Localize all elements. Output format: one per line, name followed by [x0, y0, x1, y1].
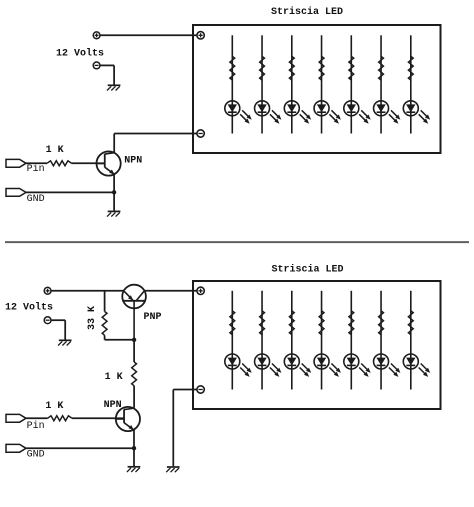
svg-text:12 Volts: 12 Volts — [56, 48, 104, 60]
LED strip module box (bottom box) — [193, 281, 441, 409]
svg-text:Striscia LED: Striscia LED — [271, 6, 343, 18]
divider line between circuits — [5, 241, 469, 243]
ground at supply - (bottom) — [58, 340, 71, 345]
wire LED string 5 of bottom box — [350, 291, 352, 390]
wire GND to emitter junction (bottom) — [26, 447, 134, 449]
ground at NPN emitter (top) — [107, 211, 120, 216]
LED strip module box (top box) — [193, 25, 441, 153]
terminal - supply (bottom) — [44, 317, 51, 324]
svg-text:NPN: NPN — [124, 156, 142, 167]
terminal - of top box — [197, 130, 204, 137]
wire LED string 2 of bottom box — [261, 291, 263, 390]
wire LED string 6 of bottom box — [380, 291, 382, 390]
svg-text:GND: GND — [27, 450, 45, 461]
wire rail to 33K (bottom) — [104, 291, 106, 312]
resistor of LED string 1 (bottom box) — [230, 311, 235, 335]
LED of string 7 (top box) — [403, 101, 430, 124]
resistor of LED string 2 (bottom box) — [260, 311, 265, 335]
wire +12V to LED box (top) — [100, 34, 197, 36]
label PNP (bottom) — [144, 312, 162, 323]
junction dot emitter/GND (top) — [112, 190, 116, 194]
wire junction to ground (top) — [113, 192, 115, 210]
svg-text:PNP: PNP — [144, 312, 162, 323]
LED of string 7 (bottom box) — [403, 354, 430, 377]
wire GND to emitter junction (top) — [26, 191, 114, 193]
svg-text:12 Volts: 12 Volts — [5, 301, 53, 313]
wire - terminal to ground (bottom) — [51, 320, 65, 339]
label 12 Volts (top) — [56, 48, 104, 60]
wire LED string 7 of top box — [410, 35, 412, 133]
wire PNP collector to LED box + (bottom) — [144, 290, 196, 292]
resistor of LED string 3 (bottom box) — [289, 311, 294, 335]
terminal + of top box — [197, 32, 204, 39]
LED of string 3 (bottom box) — [284, 354, 311, 377]
transistor PNP (bottom) — [122, 285, 146, 340]
wire LED string 6 of top box — [380, 35, 382, 133]
wire LED string 2 of top box — [261, 35, 263, 133]
wire resistor to NPN base (top) — [72, 162, 105, 164]
resistor of LED string 4 (top box) — [319, 56, 324, 80]
ground at supply - (top) — [107, 85, 120, 90]
wire junction to ground (bottom) — [133, 448, 135, 466]
wire NPN emitter down (bottom) — [133, 430, 135, 448]
connector Pin (top) — [6, 159, 26, 167]
svg-text:NPN: NPN — [104, 400, 122, 411]
wire LED string 1 of top box — [231, 35, 233, 133]
svg-text:GND: GND — [27, 194, 45, 205]
svg-text:1 K: 1 K — [46, 145, 64, 156]
LED of string 2 (bottom box) — [255, 354, 282, 377]
resistor of LED string 1 (top box) — [230, 56, 235, 80]
svg-text:Pin: Pin — [27, 420, 45, 432]
LED of string 1 (top box) — [225, 101, 252, 124]
connector Pin (bottom) — [6, 414, 26, 422]
wire 33K to base junction (bottom) — [105, 335, 135, 340]
label 1 K base (bottom) — [45, 401, 63, 412]
wire 1K to NPN collector (bottom) — [133, 386, 135, 408]
label Striscia LED (bottom) — [272, 264, 344, 276]
wire +12V to PNP emitter (bottom) — [51, 290, 124, 292]
svg-text:1 K: 1 K — [45, 401, 63, 412]
connector GND (top) — [6, 189, 26, 197]
resistor 1 K interstage (bottom) — [132, 362, 137, 386]
terminal + 12V supply (bottom) — [44, 287, 51, 294]
ground at LED box - (bottom) — [166, 467, 179, 472]
LED of string 4 (top box) — [314, 101, 341, 124]
wire LED string 1 of bottom box — [231, 291, 233, 390]
wire junction to 1K (bottom) — [133, 340, 135, 362]
resistor of LED string 7 (bottom box) — [408, 311, 413, 335]
terminal + of bottom box — [197, 287, 204, 294]
transistor NPN (bottom) — [116, 407, 140, 431]
resistor of LED string 4 (bottom box) — [319, 311, 324, 335]
resistor of LED string 7 (top box) — [408, 56, 413, 80]
wire NPN emitter down (top) — [113, 174, 115, 192]
svg-text:Pin: Pin — [27, 163, 45, 175]
ground at NPN emitter (bottom) — [127, 467, 140, 472]
terminal - of bottom box — [197, 386, 204, 393]
svg-text:Striscia LED: Striscia LED — [272, 264, 344, 276]
LED of string 5 (top box) — [344, 101, 371, 124]
resistor of LED string 6 (bottom box) — [379, 311, 384, 335]
resistor 1 K base (bottom) — [48, 416, 73, 421]
LED of string 1 (bottom box) — [225, 354, 252, 377]
resistor of LED string 3 (top box) — [289, 56, 294, 80]
resistor of LED string 5 (top box) — [349, 56, 354, 80]
svg-text:1 K: 1 K — [105, 372, 123, 383]
wire LED string 5 of top box — [350, 35, 352, 133]
label 1 K (top) — [46, 145, 64, 156]
label GND (bottom) — [27, 450, 45, 461]
wire LED string 7 of bottom box — [410, 291, 412, 390]
LED of string 4 (bottom box) — [314, 354, 341, 377]
svg-text:33 K: 33 K — [87, 306, 98, 330]
resistor of LED string 5 (bottom box) — [349, 311, 354, 335]
LED of string 2 (top box) — [255, 101, 282, 124]
label 12 Volts (bottom) — [5, 301, 53, 313]
junction dot emitter/GND (bottom) — [132, 446, 136, 450]
wire LED string 4 of bottom box — [321, 291, 323, 390]
transistor NPN (top) — [97, 151, 121, 175]
resistor 33 K (bottom) — [102, 312, 107, 336]
junction dot 33K/1K/base (bottom) — [132, 338, 136, 342]
label GND (top) — [27, 194, 45, 205]
LED of string 3 (top box) — [284, 101, 311, 124]
wire LED string 3 of top box — [291, 35, 293, 133]
wire - terminal to ground (top) — [100, 65, 114, 84]
connector GND (bottom) — [6, 444, 26, 452]
label Pin (bottom) — [27, 420, 45, 432]
terminal - supply (top) — [93, 62, 100, 69]
resistor of LED string 6 (top box) — [379, 56, 384, 80]
LED of string 5 (bottom box) — [344, 354, 371, 377]
label 1 K interstage (bottom) — [105, 372, 123, 383]
label 33 K (bottom) — [87, 306, 98, 330]
resistor 1 K base (top) — [47, 161, 72, 166]
wire LED string 4 of top box — [321, 35, 323, 133]
wire LED box - to ground (bottom) — [173, 390, 196, 467]
terminal + 12V supply (top circuit) — [93, 32, 100, 39]
wire Pin to resistor (top) — [26, 162, 47, 164]
label Pin (top) — [27, 163, 45, 175]
label NPN (bottom) — [104, 400, 122, 411]
wire Pin to resistor (bottom) — [26, 417, 48, 419]
wire LED string 3 of bottom box — [291, 291, 293, 390]
wire NPN collector to LED box - (top) — [114, 134, 197, 153]
label Striscia LED (top) — [271, 6, 343, 18]
resistor of LED string 2 (top box) — [260, 56, 265, 80]
LED of string 6 (bottom box) — [374, 354, 401, 377]
wire resistor to NPN base (bottom) — [72, 417, 124, 419]
LED of string 6 (top box) — [374, 101, 401, 124]
label NPN (top) — [124, 156, 142, 167]
